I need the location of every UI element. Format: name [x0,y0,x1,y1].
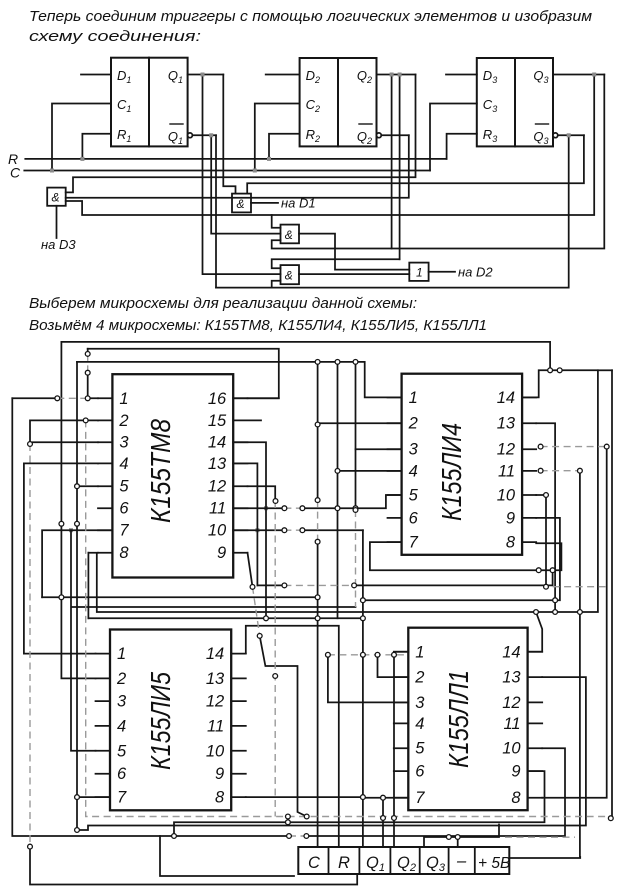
DD6 pin 6 stub [96,773,111,775]
wire Q1bar output [192,134,216,136]
DD4 pin 8 stub [98,552,112,554]
dashed y655 segment [328,654,404,656]
AND gate G4 [281,265,300,284]
svg-text:5: 5 [409,487,419,505]
junction dot V362 bus600 [361,598,366,603]
wire DD5 pin3 tap [356,448,402,450]
junction dot pin1 b [85,396,90,401]
junction dot y655 start [326,652,331,657]
DD7 pin 7 stub [394,797,409,799]
wire DD4 pin8 to bus612 [88,370,598,612]
DD7 pin 3 stub [394,701,409,703]
DD7 pin 10 stub [528,747,543,749]
junction dot linkA b [286,820,291,825]
dashed DD5 pin12 segment [541,446,607,448]
junction dot pin10 dd5 low [544,584,549,589]
svg-text:15: 15 [208,412,227,430]
wire DD4 pin11 line [233,495,401,508]
wire Q3bar output [558,134,584,136]
svg-text:Q1: Q1 [168,68,183,85]
svg-text:5: 5 [415,740,425,758]
wire y370 extension [598,369,612,371]
junction dot pin2 low [28,844,33,849]
wire DD4 pin5 tap [77,485,98,487]
DD5 pin 9 stub [522,517,536,519]
junction dot V317 a [315,498,320,503]
IC DD7 K155LL1 box [408,628,527,811]
junction dot V87 a [85,352,90,357]
svg-text:14: 14 [502,643,520,661]
svg-text:К155ЛИ5: К155ЛИ5 [145,672,176,770]
DD5 pin 3 stub [388,448,402,450]
junction dot minus b [455,835,460,840]
junction dot bus612 dd7 [534,610,539,615]
wire G4 output to OR gate [299,273,409,275]
DD5 pin 10 stub [522,494,536,496]
junction dot pin9 b [282,583,287,588]
junction dot busX right [315,595,320,600]
wire top frame T1 [61,342,550,370]
wire Q2 to G1 input1 [66,75,416,193]
DD6 pin 13 stub [231,677,246,679]
wire bus618 [88,617,363,619]
svg-text:6: 6 [117,765,127,783]
junction Q3bar dot [567,133,571,137]
DD4 pin 5 stub [98,485,112,487]
svg-text:Q3: Q3 [426,854,446,874]
DD6 pin 3 stub [96,700,111,702]
wire DD4 pin1 solid left segment [12,397,98,399]
wire T1b to DD4 pin16 [88,349,279,399]
svg-text:9: 9 [217,544,226,562]
IC DD6 K155LI5 box [110,630,231,811]
svg-text:13: 13 [206,670,225,688]
dashed DD5 pin11 segment [541,470,580,472]
DD6 pin 1 stub [96,653,111,655]
svg-text:6: 6 [409,509,419,527]
D-flip-flop DD1 box [111,58,188,147]
junction dot pin10 dd5 [544,493,549,498]
wire bus586 left [257,584,284,586]
DD6 pin 9 stub [231,773,246,775]
wire DD5 pin4 tap [338,470,402,472]
junction dot y370 a [548,368,553,373]
svg-text:Q3: Q3 [533,129,548,146]
svg-text:10: 10 [208,522,227,540]
wire DD4 pin1 left vertical to bottom rail [12,398,565,836]
DD7 pin 4 stub [394,722,409,724]
DD5 pin 11 stub [522,470,536,472]
dashed wire pin1 segment [57,397,87,399]
DD5 pin 14 stub [522,396,536,398]
wire V355 upper [355,362,357,510]
junction dot pin11b [300,506,305,511]
junction dot bus570 a [536,568,541,573]
DD6 pin 11 stub [231,725,246,727]
wire DD4 pin3 left [30,441,98,443]
wire V337 from T3 [337,362,339,618]
junction dot T3 c [315,360,320,365]
wire DD4 pin13 to bus586 [233,463,257,585]
junction dot q1 riser [361,795,366,800]
junction V71 pin7 [69,528,73,532]
DD4 pin 3 stub [98,441,112,443]
junction dot V362 bus618 [361,616,366,621]
wire OR output to na D2 [429,271,455,273]
wire Q3 and minus feeds [424,825,499,848]
wire R3 input [447,134,477,159]
svg-text:C2: C2 [306,97,320,114]
svg-text:8: 8 [511,789,521,807]
junction dot V87 b [85,370,90,375]
junction dot dd7 pin7 [392,816,397,821]
wire Q3 end to G3 bottom wrap [272,75,605,249]
wire Q3 output [553,74,604,76]
junction dot T3 a [335,360,340,365]
wire Q1bar down to G4 wrap line [215,135,217,287]
junction dot pin2 dash [83,418,88,423]
wire linkA [287,817,289,823]
svg-text:схему соединения:: схему соединения: [29,28,201,45]
svg-text:D1: D1 [117,68,131,85]
junction dot pin9 a [250,585,255,590]
wire V79 from T3 to low rail [77,362,586,830]
junction dot busX left [59,595,64,600]
svg-text:11: 11 [209,500,226,518]
wire Q1 to G4 input [203,75,281,275]
wire bus570 DD5 pin7 to pin8 [370,542,562,570]
dashed V355 lower [355,510,357,607]
wire rail822 to DD7 pin9 [174,771,545,836]
svg-text:Выберем микросхемы для реализа: Выберем микросхемы для реализации данной… [29,295,417,312]
wire Q1 output [188,74,224,76]
svg-text:Q3: Q3 [533,68,548,85]
junction Q1bar dot [209,133,213,137]
junction dot pin12 dd5 b [604,444,609,449]
junction dot V355 [353,508,358,513]
wire Q2bar to G1 input2 [66,135,409,197]
svg-text:R: R [338,854,350,872]
svg-text:1: 1 [416,266,423,280]
svg-text:&: & [285,269,293,283]
DD7 pin 14 stub [528,651,543,653]
wire R1 input [82,134,111,159]
junction dot pin11a [282,506,287,511]
DD4 pin 1 stub [98,397,112,399]
svg-text:5: 5 [119,478,129,496]
dashed bottom segment near minus [505,836,575,838]
DD5 pin 6 stub [388,517,402,519]
wire DD6 pin14 to terminal R [246,626,339,847]
wire DD6 pin8 to Q1 riser [246,796,363,798]
wire G4 top wrap [272,259,400,268]
junction dot V317 b [315,539,320,544]
junction dot V337 pin4 [335,469,340,474]
IC DD4 K155TM8 box [112,374,233,577]
DD5 pin 1 stub [388,396,402,398]
svg-text:2: 2 [118,412,128,430]
junction V257 pin10 [255,528,259,532]
wire D3 input stub [446,74,477,76]
svg-text:11: 11 [503,715,520,733]
dashed bus586 right segment [553,586,608,588]
DD4 pin 4 stub [98,462,112,464]
DD5 pin 2 stub [388,422,402,424]
wire bottom line left [160,836,294,876]
svg-text:9: 9 [511,763,520,781]
svg-text:12: 12 [502,694,520,712]
wire DD4 pin14 to bus618 [233,442,266,618]
svg-text:К155ТМ8: К155ТМ8 [145,419,176,523]
svg-text:3: 3 [415,694,425,712]
junction dot dashed end [608,816,613,821]
DD6 pin 14 stub [231,653,246,655]
junction dot pin10a [282,528,287,533]
svg-text:7: 7 [409,534,419,552]
DD7 pin 11 stub [528,722,543,724]
svg-text:К155ЛИ4: К155ЛИ4 [436,423,467,521]
svg-text:10: 10 [206,742,225,760]
wire Q2 to G4 upper wrap [399,75,401,260]
junction dot v80 low [75,828,80,833]
svg-text:11: 11 [207,717,224,735]
DD4 pin 2 stub [98,419,112,421]
junction dot dd6pin7 [75,795,80,800]
wire pin2 dashed bottom to Q1 [30,847,357,885]
svg-text:10: 10 [497,487,516,505]
svg-text:6: 6 [119,500,129,518]
svg-text:4: 4 [117,717,126,735]
DD4 pin 9 stub [233,552,247,554]
wire DD4 pin4 to DD6 pin1 [24,463,98,653]
svg-text:1: 1 [415,643,424,661]
junction dot pin11c [335,506,340,511]
DD5 pin 5 stub [388,494,402,496]
connector divider 5 [448,847,450,874]
wire diag joint wire down [260,636,307,817]
dashed V87 gap [87,354,89,373]
svg-text:Q1: Q1 [168,129,183,146]
connector divider 6 [474,847,476,874]
svg-text:3: 3 [117,693,127,711]
inversion bubble Q2bar [377,133,382,138]
svg-text:13: 13 [497,415,516,433]
svg-text:14: 14 [208,434,226,452]
svg-text:16: 16 [208,390,227,408]
wire bus586 right [354,570,552,585]
wire DD4 pin12 to dashed riser [248,486,276,501]
DD4 pin 16 stub [233,397,247,399]
wire DD5 pin11 solid drop to terminal +5V [509,471,580,858]
junction dot bus586 b [352,583,357,588]
svg-text:D3: D3 [483,68,497,85]
wire DD5 pin13 riser [536,423,555,612]
DD7 pin 1 stub [394,651,409,653]
D-flip-flop DD2 box [300,58,377,146]
wire Q1 riser from DD7 pin7 [382,798,384,847]
svg-text:4: 4 [415,715,424,733]
svg-text:13: 13 [502,669,521,687]
IC DD5 K155LI4 box [402,374,522,555]
DD7 pin 5 stub [394,747,409,749]
dashed pin11 gap [284,507,302,509]
svg-text:–: – [456,852,467,870]
junction dot diag end [304,814,309,819]
wire G3 top wrap branch [272,215,281,228]
svg-text:Возьмём 4 микросхемы: К155ТМ8,: Возьмём 4 микросхемы: К155ТМ8, К155ЛИ4, … [29,317,487,334]
DD6 pin 5 stub [96,750,111,752]
wire T1 left riser to DD6 pin2 [61,342,95,679]
wire R2 input [269,134,300,159]
DD4 pin 7 stub [98,529,112,531]
junction R1-R rail [80,157,84,161]
svg-text:13: 13 [208,455,227,473]
DD7 pin 6 stub [394,770,409,772]
junction Q2 dot b [398,73,402,77]
wire Q1 to G2 top input [223,75,235,194]
svg-text:&: & [285,228,293,242]
junction dot V266 bus618 [264,616,269,621]
connector divider 3 [389,847,391,874]
junction R2-R rail [267,157,271,161]
DD5 pin 8 stub [522,541,536,543]
dashed riser D2 with bottom rail [86,420,611,816]
svg-text:Q2: Q2 [357,129,372,146]
dashed C riser gap [317,500,319,542]
DD6 pin 8 stub [231,796,246,798]
wire DD7 pin1 to Q2 [394,652,408,847]
AND gate G3 [281,225,300,244]
junction dot pin1 a [55,396,60,401]
svg-text:1: 1 [119,390,128,408]
junction C1-C rail [50,169,54,173]
junction dot v80 [75,521,80,526]
wire DD4 pin2 left [30,420,98,444]
junction dot linkA a [286,814,291,819]
svg-text:на D3: на D3 [41,237,76,252]
wire V87 upper [87,349,89,399]
wire Q1bar to G3 input [211,135,280,233]
junction dot pin11 dd5 a [538,468,543,473]
AND gate G2 (to D1) [232,194,251,213]
wire bus607 to DD6 pin5 [71,530,356,751]
connector divider 4 [419,847,421,874]
wire DD4 pin7 to busX [42,530,112,597]
junction dot pin11 dd5 b [578,468,583,473]
svg-text:К155ЛЛ1: К155ЛЛ1 [443,670,474,768]
dashed riser pin2 [29,444,31,847]
junction dot rail836 b [304,834,309,839]
wire bus600 to DD5 pin9 [363,518,560,600]
junction Q3 dot [592,73,596,77]
svg-text:&: & [237,197,245,211]
DD4 pin 10 stub [233,529,247,531]
wire G1 output to na D3 [56,206,58,238]
junction C2-C rail [253,169,257,173]
wire DD4 pin8 riser2 to bus618 [87,553,89,619]
svg-text:7: 7 [117,789,127,807]
junction dot y655 a [361,652,366,657]
wire Q2 output [377,74,416,76]
svg-text:8: 8 [119,544,129,562]
svg-text:Q1: Q1 [366,854,385,874]
svg-text:D2: D2 [306,68,320,85]
svg-text:1: 1 [409,389,418,407]
junction dot pin5 [75,484,80,489]
wire DD5 pin12 solid drop to DD7 pin8 [542,447,607,798]
wire DD7 pin3 to y655 line [328,655,408,703]
wire Q3bar to G4 bottom wrap [216,135,569,287]
svg-text:12: 12 [208,478,226,496]
DD7 pin 13 stub [528,676,543,678]
junction Q2 dot a [390,73,394,77]
svg-text:8: 8 [506,534,516,552]
junction dot q1 riser2 [381,816,386,821]
svg-text:8: 8 [215,789,225,807]
svg-text:9: 9 [506,509,515,527]
junction dot pin2 top [28,442,33,447]
junction dot v579 bus612 [578,610,583,615]
wire G4 bottom wrap branch [272,281,281,288]
svg-text:C: C [10,165,21,181]
svg-text:12: 12 [206,693,224,711]
junction dot y370 b [557,368,562,373]
junction dot v65 [59,521,64,526]
wire C1 input [52,104,111,171]
wire DD7 pin7 line [365,797,408,799]
wire DD7 pin14 riser diagonal [528,612,543,652]
DD4 pin 14 stub [233,441,247,443]
D-flip-flop DD3 box [477,58,553,146]
DD7 pin 2 stub [394,676,409,678]
svg-text:Q2: Q2 [357,68,372,85]
DD5 pin 4 stub [388,470,402,472]
wire DD4 pin10 riser to Q1 [362,530,364,847]
svg-text:Теперь соединим триггеры с пом: Теперь соединим триггеры с помощью логич… [29,8,593,25]
DD4 pin 13 stub [233,462,247,464]
junction dot v555 bus600 [553,598,558,603]
dashed pin10 gap [284,529,302,531]
svg-text:10: 10 [502,740,521,758]
DD7 pin 12 stub [528,701,543,703]
junction dot V317 bus618 [315,616,320,621]
junction dot y655 end [392,652,397,657]
inversion bubble Q1bar [188,133,193,138]
svg-text:C3: C3 [483,97,497,114]
wire Q2 to G3 lower wrap [391,75,393,249]
dashed pin9 gap segment [284,584,354,586]
wire Q2bar output [381,134,409,136]
connector X1 box [298,847,509,874]
wire G2 output to na D1 [251,202,278,204]
svg-text:2: 2 [116,670,126,688]
svg-text:R3: R3 [483,127,497,144]
svg-text:4: 4 [119,455,128,473]
wire Q3 to G1 input3 and G3 branch [66,75,595,216]
DD6 pin 2 stub [96,677,111,679]
wire C rail [24,170,430,172]
wire D1 input stub [81,74,111,76]
DD5 pin 7 stub [388,541,402,543]
wire DD4 pin16 riser [248,397,279,399]
DD4 pin 6 stub [98,507,112,509]
junction dot V317 pin2 [315,422,320,427]
DD7 pin 9 stub [528,770,543,772]
svg-text:6: 6 [415,763,425,781]
connector divider 1 [328,847,330,874]
junction dot bus612 dd5pin13 [553,610,558,615]
wire DD4 pin10 line [233,529,363,531]
